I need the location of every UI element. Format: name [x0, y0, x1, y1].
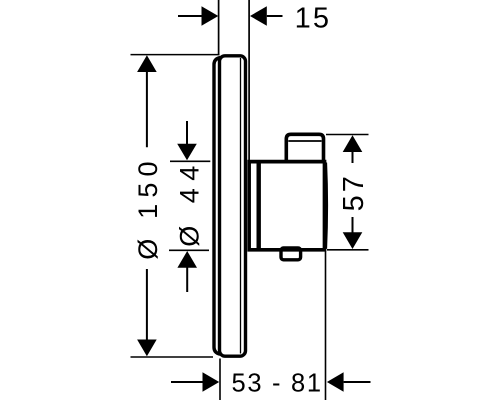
valve body right edge bow	[326, 163, 327, 249]
dim 15: left arrowhead	[202, 6, 219, 26]
ext line: plate front bottom (53-81 left)	[219, 359, 221, 400]
dim 57: bottom shaft	[352, 217, 354, 233]
svg-text:15: 15	[295, 3, 332, 35]
valve body left edge	[247, 160, 251, 252]
escutcheon front face rim	[214, 57, 221, 354]
dim 57: bottom arrowhead	[343, 232, 363, 249]
stop block inner line	[288, 140, 321, 142]
ext line: body right bottom (53-81 right)	[325, 252, 327, 400]
ext line: handle top (d44)	[170, 160, 210, 162]
dim 15: left arrow shaft	[178, 15, 202, 17]
stop block (top)	[286, 134, 323, 160]
ext line: handle bottom (d44)	[169, 249, 209, 251]
dim 53-81: left arrowhead	[203, 372, 220, 392]
dim d150: bottom shaft	[146, 269, 148, 340]
handle neck step line	[257, 163, 261, 248]
plate back inner thin line	[240, 58, 242, 354]
dim d44: bottom shaft	[186, 267, 188, 292]
dim 53-81: right arrowhead	[327, 372, 344, 392]
flush stop tab	[281, 248, 301, 260]
dim d150: top shaft	[146, 71, 148, 147]
dim 57: top shaft	[352, 151, 354, 163]
dim 57: top arrowhead	[343, 135, 363, 152]
extension line: plate front (15 dim, left)	[218, 0, 220, 54]
ext line: body bottom right (57)	[327, 249, 369, 251]
ext line: stop block top (57)	[326, 134, 369, 136]
dim 15: right arrowhead	[250, 6, 267, 26]
dim d44: top arrowhead	[177, 144, 197, 161]
dim d44: top shaft	[186, 121, 188, 144]
dim 53-81: left arrow shaft	[171, 381, 203, 383]
dim d44: bottom arrowhead	[177, 251, 197, 268]
svg-text:57: 57	[338, 173, 370, 211]
dim 53-81: right arrow shaft	[344, 381, 371, 383]
ext line: plate top (d150)	[131, 54, 220, 56]
svg-text:Ø 150: Ø 150	[133, 155, 163, 260]
dim 15: right arrow shaft	[267, 15, 283, 17]
svg-text:Ø 44: Ø 44	[174, 158, 204, 247]
ext line: plate bottom (d150)	[131, 356, 214, 358]
escutcheon plate outline	[220, 56, 246, 356]
dim d150: bottom arrowhead	[137, 340, 157, 357]
extension line: plate back (15 dim, right)	[248, 0, 250, 160]
valve body block	[248, 162, 325, 250]
dim d150: top arrowhead	[137, 55, 157, 72]
svg-text:53 - 81: 53 - 81	[232, 370, 323, 398]
